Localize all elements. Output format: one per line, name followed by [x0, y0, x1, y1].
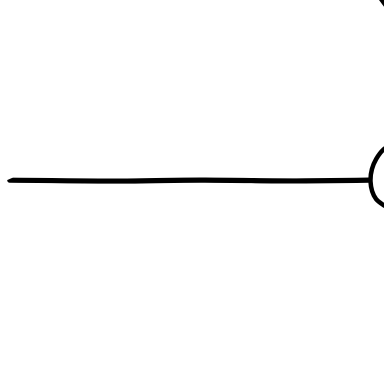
wire left tip taper (white cut)	[6, 176, 14, 181]
wire (clipped at top-right corner)	[377, 0, 384, 12]
wire	[10, 180, 370, 181]
transistor Q1 envelope (partial circle at right edge)	[370, 147, 384, 208]
